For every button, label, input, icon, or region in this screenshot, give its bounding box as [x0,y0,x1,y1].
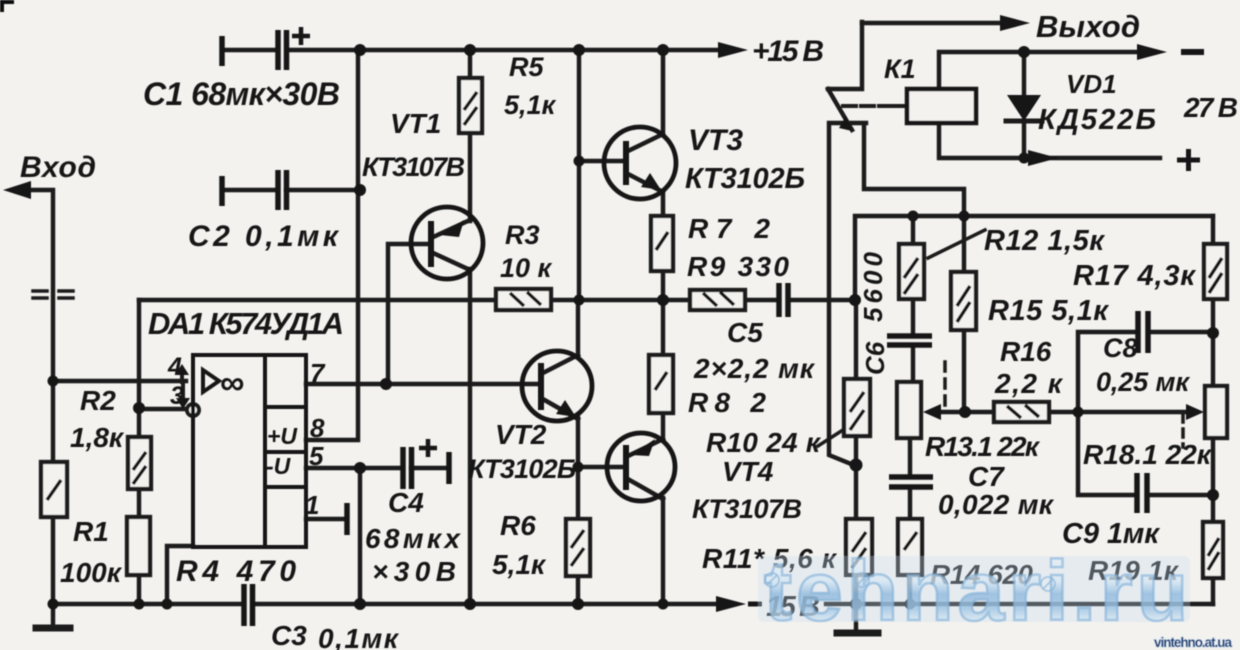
svg-text:С5: С5 [727,317,763,348]
svg-text:С1 68мк×30В: С1 68мк×30В [143,76,340,112]
svg-text:С6: С6 [860,341,890,375]
svg-text:1: 1 [305,490,319,520]
svg-text:8: 8 [310,413,325,443]
svg-text:R16: R16 [1000,336,1052,367]
svg-text:R17 4,3к: R17 4,3к [1073,260,1196,292]
svg-text:Вход: Вход [20,151,96,184]
svg-text:-U: -U [266,453,292,479]
svg-text:10 к: 10 к [500,253,553,283]
svg-text:5: 5 [309,441,324,471]
svg-text:R6: R6 [500,510,536,541]
svg-text:VD1: VD1 [1066,69,1117,99]
svg-text:Выход: Выход [1036,9,1140,44]
svg-text:+U: +U [267,423,298,449]
svg-text:VT4: VT4 [722,456,774,487]
svg-text:R10 24 к: R10 24 к [706,427,822,458]
svg-text:×30В: ×30В [372,556,456,587]
svg-text:tehnari.ru: tehnari.ru [764,544,1188,638]
svg-text:КД522Б: КД522Б [1038,104,1156,136]
svg-text:R15 5,1к: R15 5,1к [988,295,1109,327]
svg-text:R3: R3 [505,220,540,250]
svg-text:С8: С8 [1103,333,1138,363]
svg-text:К1: К1 [884,54,916,84]
svg-text:5,1к: 5,1к [492,549,547,580]
svg-text:100к: 100к [60,557,123,588]
svg-text:0,25 мк: 0,25 мк [1096,367,1190,397]
svg-text:0,022 мк: 0,022 мк [938,489,1055,520]
svg-text:1,8к: 1,8к [70,422,125,453]
svg-text:R1: R1 [73,516,109,547]
svg-text:3: 3 [170,382,184,410]
svg-text:С7: С7 [968,461,1005,492]
svg-text:С3: С3 [271,620,307,650]
svg-text:∞: ∞ [220,364,244,402]
svg-text:2×2,2 мк: 2×2,2 мк [693,353,816,384]
svg-text:68мкх: 68мкх [365,523,461,554]
svg-text:vintehno.at.ua: vintehno.at.ua [1154,635,1232,650]
svg-text:КТ3102Б: КТ3102Б [468,454,576,484]
svg-text:7: 7 [310,358,326,388]
svg-text:VT1: VT1 [390,108,441,139]
svg-text:С4: С4 [388,487,424,518]
svg-text:4: 4 [167,353,182,381]
svg-text:+15 В: +15 В [752,35,824,68]
svg-text:DA1 К574УД1А: DA1 К574УД1А [148,306,344,341]
svg-text:VT3: VT3 [688,124,743,157]
svg-text:R7 2: R7 2 [688,213,770,244]
svg-text:КТ3107В: КТ3107В [692,494,802,524]
svg-text:0,1мк: 0,1мк [318,623,400,650]
svg-text:R12 1,5к: R12 1,5к [984,225,1105,257]
svg-text:VT2: VT2 [495,419,547,450]
svg-text:R13.1 22к: R13.1 22к [925,431,1041,462]
svg-text:КТ3107В: КТ3107В [362,152,465,182]
svg-text:2,2 к: 2,2 к [994,368,1064,399]
svg-text:5,1к: 5,1к [504,90,557,120]
svg-text:R8 2: R8 2 [688,387,766,418]
svg-text:R18.1 22к: R18.1 22к [1083,439,1213,470]
svg-text:R5: R5 [509,52,544,82]
svg-text:27 В: 27 В [1183,92,1238,123]
svg-text:R2: R2 [80,385,116,416]
svg-text:КТ3102Б: КТ3102Б [685,163,805,195]
svg-text:R9 330: R9 330 [687,251,789,282]
